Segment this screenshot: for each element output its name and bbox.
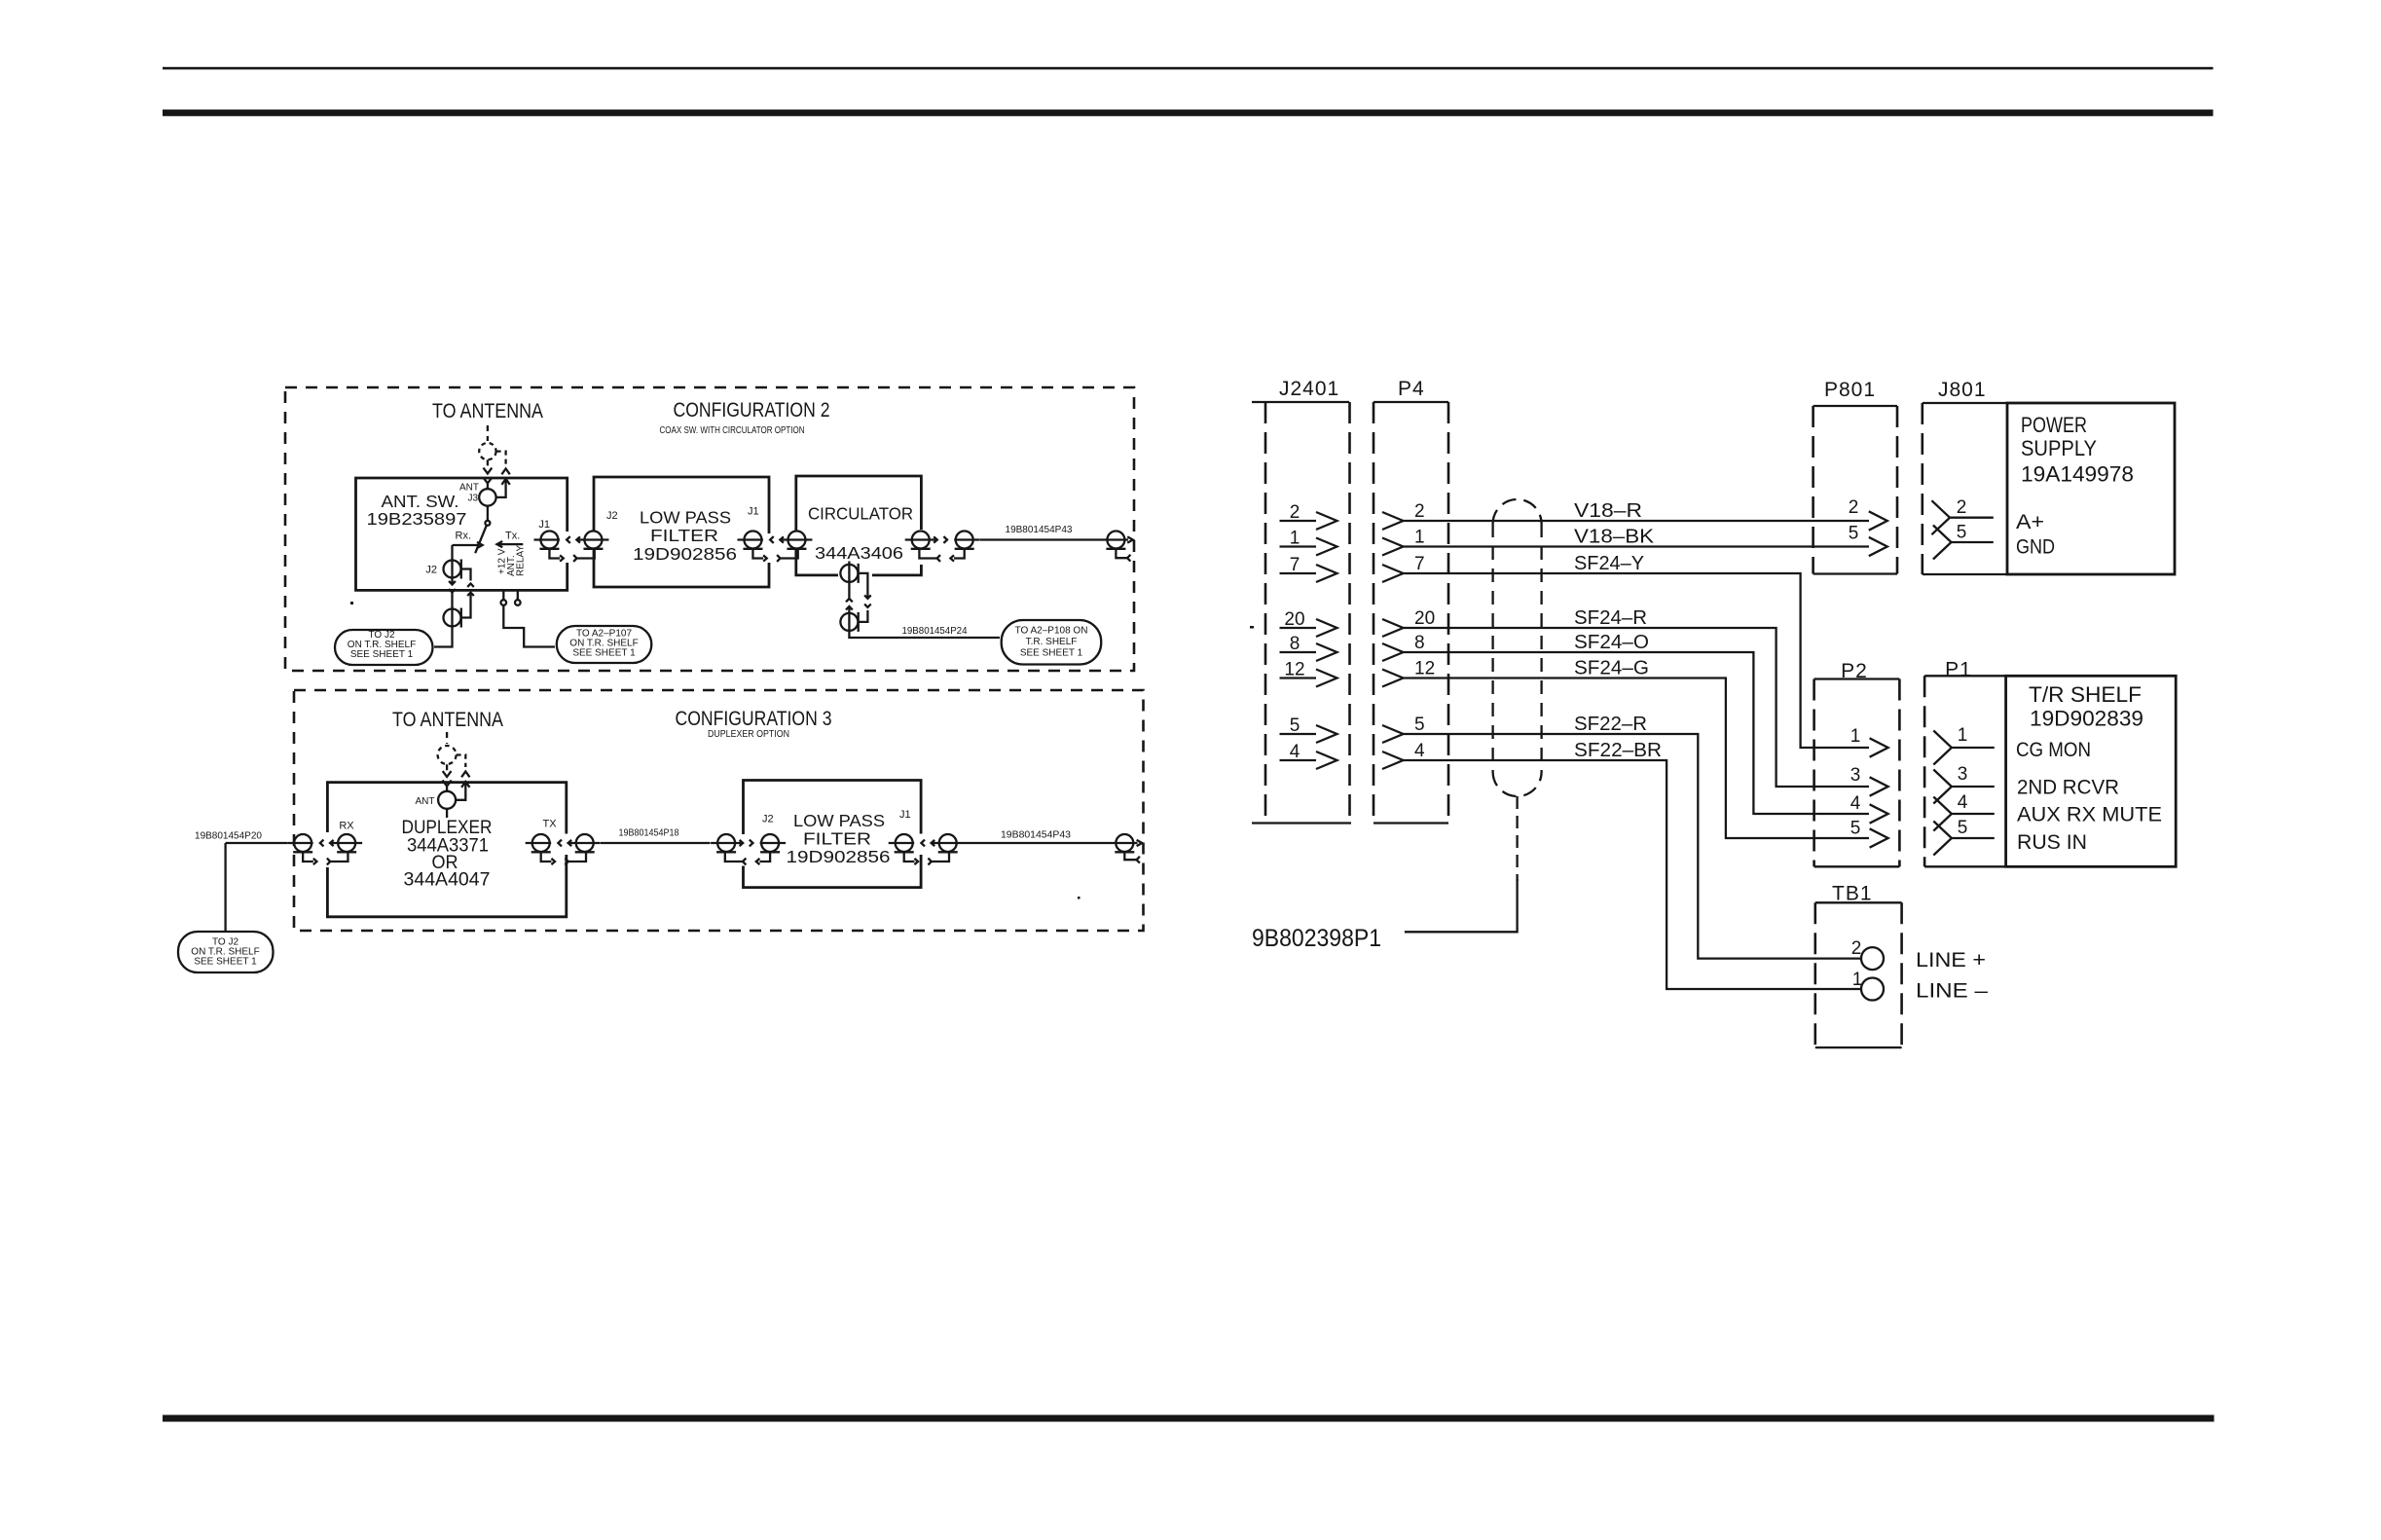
P4 pin 5 / wire SF22-R (1382, 725, 1404, 743)
svg-text:LOW PASS: LOW PASS (793, 811, 885, 830)
config 2 dashed border (285, 387, 1134, 671)
svg-text:19A149978: 19A149978 (2021, 462, 2134, 487)
mated pair LPF J1 output (config 3) (889, 834, 964, 864)
svg-text:5: 5 (1849, 524, 1859, 544)
svg-text:LOW PASS: LOW PASS (640, 508, 731, 528)
svg-text:19B235897: 19B235897 (367, 509, 467, 529)
svg-text:5: 5 (1414, 715, 1425, 735)
svg-text:SF24–Y: SF24–Y (1574, 553, 1644, 574)
antenna mate right return config 2 (496, 452, 506, 464)
svg-text:FILTER: FILTER (650, 526, 718, 545)
wire from lower connector down to oval lead (434, 626, 453, 647)
J801 pin 2 (1931, 500, 1950, 534)
ANT J3 connector (479, 489, 495, 505)
svg-text:19B801454P43: 19B801454P43 (1006, 525, 1073, 535)
P4 pin 8 / wire SF24-O (1382, 643, 1404, 661)
svg-text:SF24–O: SF24–O (1574, 632, 1649, 653)
svg-text:Rx.: Rx. (456, 531, 472, 542)
P1 pin 3 (1933, 770, 1952, 804)
svg-text:ANT: ANT (459, 483, 479, 494)
svg-text:2ND RCVR: 2ND RCVR (2017, 777, 2119, 799)
svg-text:19D902856: 19D902856 (787, 847, 891, 866)
scan speck (1078, 897, 1081, 899)
svg-text:20: 20 (1414, 608, 1435, 629)
svg-text:SUPPLY: SUPPLY (2021, 436, 2097, 460)
svg-text:POWER: POWER (2021, 413, 2087, 437)
mated pair circulator output (variant B) (905, 532, 980, 562)
svg-text:J3: J3 (467, 494, 478, 504)
cable bundle oval 9B802398P1 (1493, 499, 1542, 524)
svg-text:344A4047: 344A4047 (404, 870, 491, 891)
svg-text:12: 12 (1414, 659, 1435, 679)
svg-text:1: 1 (1850, 726, 1861, 747)
antenna stem (dashed) config 3 (446, 732, 448, 770)
svg-text:19D902856: 19D902856 (633, 544, 737, 564)
scan speck (350, 602, 353, 605)
switch pivot (485, 521, 490, 526)
svg-text:1: 1 (1852, 970, 1863, 990)
svg-text:TO A2–P108 ON: TO A2–P108 ON (1015, 626, 1088, 637)
J801 pin 5 (1933, 526, 1952, 560)
svg-text:CONFIGURATION 2: CONFIGURATION 2 (674, 399, 830, 422)
TB1 terminal 2 (1861, 947, 1884, 970)
oval TO A2-P108 ON T.R. SHELF SEE SHEET 1 (1002, 620, 1102, 665)
antenna connector (dashed circle) config 2 (479, 443, 495, 459)
svg-text:1: 1 (1414, 528, 1425, 548)
circulator bottom connector stem inside box (848, 562, 850, 567)
end connector at border (config 3) (1116, 834, 1133, 852)
antenna connector (dashed circle) config 3 (438, 746, 457, 764)
ANT connector (duplexer) (438, 791, 456, 809)
bottom thick rule (163, 1415, 2215, 1422)
svg-text:2: 2 (1849, 497, 1859, 518)
svg-text:CIRCULATOR: CIRCULATOR (808, 504, 913, 524)
top thick rule (163, 110, 2214, 117)
svg-text:J2401: J2401 (1279, 378, 1339, 400)
svg-text:LINE +: LINE + (1916, 949, 1986, 972)
svg-text:Tx.: Tx. (505, 531, 520, 542)
svg-text:5: 5 (1850, 819, 1861, 839)
P4 pin 4 / wire SF22-BR (1382, 752, 1404, 769)
svg-text:J1: J1 (538, 519, 550, 531)
contact terminals (501, 600, 507, 605)
svg-text:19B801454P20: 19B801454P20 (195, 831, 262, 842)
svg-text:RX: RX (339, 821, 354, 832)
+12V / ANT.RELAY contact stubs (503, 590, 518, 600)
top thin rule (163, 67, 2214, 70)
svg-text:CONFIGURATION 3: CONFIGURATION 3 (676, 708, 832, 730)
wire from lower connector to oval TO A2-P108 (849, 631, 1000, 638)
P4 pin 2 / wire V18-R (1382, 512, 1404, 530)
P1 pin 5 (1933, 822, 1952, 856)
svg-text:A+: A+ (2016, 511, 2044, 533)
svg-text:SEE SHEET 1: SEE SHEET 1 (572, 648, 636, 659)
svg-text:V18–R: V18–R (1574, 500, 1642, 522)
CIRCULATOR box 344A3406 (796, 476, 922, 575)
wire from Rx arrow down to J2 (451, 545, 453, 561)
svg-text:TX: TX (542, 819, 557, 830)
svg-text:J801: J801 (1938, 379, 1987, 401)
svg-text:J1: J1 (748, 506, 759, 518)
P4 pin 12 / wire SF24-G (1382, 670, 1404, 687)
scan speck (1250, 626, 1254, 629)
svg-text:RUS IN: RUS IN (2017, 831, 2087, 854)
oval TO A2-P107 ON T.R. SHELF SEE SHEET 1 (557, 626, 652, 663)
leader from oval bottom to label (1516, 796, 1518, 881)
ANT. SW. box 19B235897 (356, 478, 568, 590)
svg-text:RELAY: RELAY (516, 545, 527, 576)
svg-text:3: 3 (1850, 765, 1861, 786)
svg-text:9B802398P1: 9B802398P1 (1252, 925, 1381, 952)
svg-text:TB1: TB1 (1832, 883, 1873, 905)
svg-text:DUPLEXER OPTION: DUPLEXER OPTION (708, 729, 789, 740)
svg-text:J2: J2 (762, 814, 774, 825)
svg-text:TO ANTENNA: TO ANTENNA (392, 709, 503, 731)
stem below ANT connector (446, 809, 448, 818)
svg-text:2: 2 (1957, 497, 1967, 518)
TB1 terminal 1 (1861, 978, 1884, 1001)
svg-text:T/R SHELF: T/R SHELF (2029, 682, 2142, 707)
long wire 19B801454P43 (config 2) (980, 538, 1101, 540)
svg-text:SF24–R: SF24–R (1574, 607, 1647, 629)
POWER SUPPLY 19A149978 box (2007, 403, 2175, 574)
LOW PASS FILTER box 19D902856 (config 2) (594, 477, 769, 587)
svg-text:1: 1 (1958, 725, 1968, 746)
svg-text:2: 2 (1414, 501, 1425, 522)
svg-text:P1: P1 (1945, 659, 1972, 681)
svg-text:TO ANTENNA: TO ANTENNA (432, 400, 543, 422)
LOW PASS FILTER box (config 3) (744, 781, 922, 888)
P1 pin 4 (1933, 797, 1952, 831)
svg-text:FILTER: FILTER (803, 829, 871, 849)
svg-text:SEE SHEET 1: SEE SHEET 1 (194, 957, 257, 968)
P4 pin 1 / wire V18-BK (1382, 538, 1404, 556)
J2 vertical mate pair going down (444, 560, 474, 628)
mated pair duplexer TX output (526, 834, 601, 864)
svg-text:SF22–BR: SF22–BR (1574, 740, 1662, 761)
svg-text:T.R. SHELF: T.R. SHELF (1026, 637, 1078, 647)
P4 pin 7 / wire SF24-Y (1382, 565, 1404, 582)
svg-text:AUX RX MUTE: AUX RX MUTE (2017, 804, 2162, 826)
svg-text:SEE SHEET 1: SEE SHEET 1 (350, 649, 414, 660)
svg-text:SEE SHEET 1: SEE SHEET 1 (1020, 648, 1083, 659)
svg-text:19B801454P18: 19B801454P18 (619, 828, 679, 839)
svg-text:4: 4 (1958, 792, 1968, 813)
svg-text:J1: J1 (899, 809, 911, 821)
switch blade (475, 526, 486, 553)
svg-text:V18–BK: V18–BK (1574, 527, 1655, 548)
svg-text:19B801454P24: 19B801454P24 (902, 626, 968, 637)
oval TO J2 ON T.R. SHELF SEE SHEET 1 (335, 630, 433, 665)
svg-text:19B801454P43: 19B801454P43 (1001, 830, 1071, 841)
antenna mate marks config 2 (484, 468, 493, 474)
svg-text:2: 2 (1851, 938, 1862, 959)
P1 pin 1 (1933, 731, 1952, 765)
end connector at border (config 2) (1107, 532, 1124, 549)
svg-text:7: 7 (1414, 554, 1425, 574)
wire from left contact to oval TO A2-P107 (503, 605, 555, 647)
svg-text:CG MON: CG MON (2016, 739, 2091, 761)
svg-text:P4: P4 (1398, 378, 1425, 400)
svg-text:344A3406: 344A3406 (815, 543, 903, 563)
mated pair into LPF J2 (config 3, variant B) (711, 834, 786, 864)
svg-text:3: 3 (1958, 764, 1968, 785)
mated pair into duplexer RX (287, 834, 362, 864)
svg-text:COAX SW. WITH CIRCULATOR OPTIO: COAX SW. WITH CIRCULATOR OPTION (660, 425, 805, 436)
circulator bottom mate (signal up) (840, 564, 870, 632)
mated pair J1 (ANT.SW) to J2 (LPF) (533, 532, 608, 562)
svg-text:4: 4 (1850, 793, 1861, 814)
svg-text:GND: GND (2016, 536, 2055, 559)
antenna mate right return config 3 (457, 755, 466, 768)
svg-text:8: 8 (1414, 633, 1425, 653)
svg-text:SF22–R: SF22–R (1574, 714, 1647, 735)
incoming wire 19B801454P20 (226, 842, 287, 844)
P4 pin 20 / wire SF24-R (1382, 619, 1404, 637)
oval TO J2 ON T.R. SHELF SEE SHEET 1 (config 3) (178, 932, 274, 972)
long wire 19B801454P43 (config 3) (963, 842, 1109, 844)
svg-text:P801: P801 (1824, 379, 1876, 401)
switch stem from J3 (487, 506, 489, 521)
svg-text:SF24–G: SF24–G (1574, 658, 1649, 679)
config 3 dashed border (294, 690, 1144, 931)
antenna stem (dashed) config 2 (487, 425, 489, 467)
svg-text:J2: J2 (425, 565, 437, 576)
svg-text:5: 5 (1957, 523, 1967, 543)
wire 19B801454P18 (601, 842, 711, 844)
svg-text:J2: J2 (606, 510, 618, 522)
svg-text:5: 5 (1958, 818, 1968, 838)
T/R SHELF 19D902839 box (2006, 676, 2177, 866)
svg-text:ANT: ANT (416, 796, 435, 807)
DUPLEXER box 344A3371 OR 344A4047 (327, 783, 566, 917)
svg-text:19D902839: 19D902839 (2030, 707, 2143, 731)
svg-text:LINE –: LINE – (1916, 980, 1988, 1003)
antenna mate marks config 3 (443, 771, 452, 777)
mated pair J1 (LPF) to circulator input (737, 532, 812, 562)
svg-text:ANT. SW.: ANT. SW. (382, 492, 459, 511)
drop to oval TO J2 (config 3) (224, 843, 226, 931)
svg-text:4: 4 (1414, 741, 1425, 761)
